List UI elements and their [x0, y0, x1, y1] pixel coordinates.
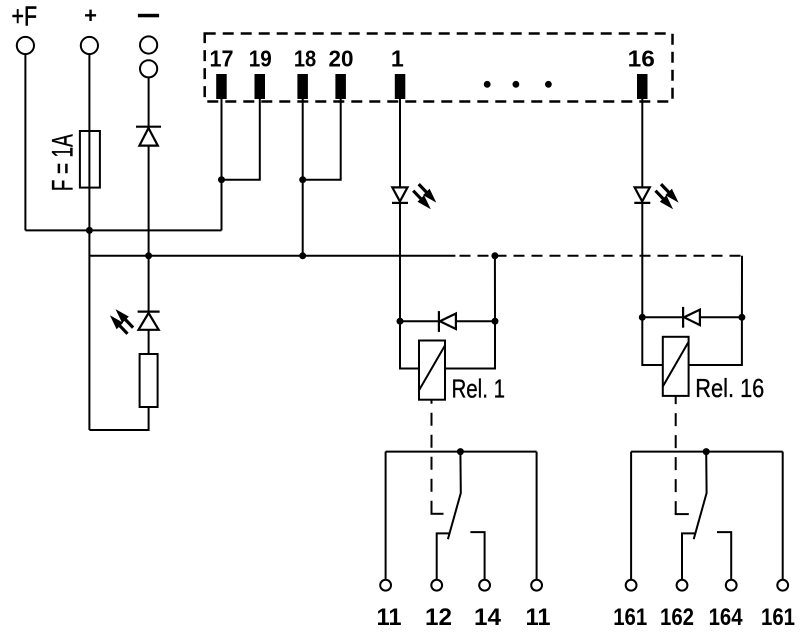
terminal 164 — [726, 580, 737, 591]
terminal 12 — [431, 580, 442, 591]
svg-text:161: 161 — [761, 604, 795, 631]
terminal 161 left — [626, 580, 637, 591]
svg-text:161: 161 — [613, 604, 647, 631]
freewheel diode D1 — [400, 311, 495, 332]
svg-text:+F: +F — [12, 1, 38, 32]
svg-text:12: 12 — [425, 604, 452, 631]
wire NC contact 162 — [682, 533, 695, 579]
svg-text:16: 16 — [628, 46, 655, 72]
contact bus 161 channel 16 — [631, 451, 783, 453]
pin 19 — [249, 46, 272, 100]
pin 16 — [628, 46, 655, 100]
rail B dashed part — [460, 255, 743, 257]
svg-text:14: 14 — [474, 604, 502, 631]
pin 1 — [391, 46, 405, 100]
svg-text:20: 20 — [329, 46, 354, 72]
wire + line down through fuse to bottom wrap — [88, 54, 90, 430]
wire pin 17 to rail A — [221, 99, 223, 230]
svg-text:Rel. 16: Rel. 16 — [695, 373, 764, 403]
wire NO contact 14 — [470, 532, 484, 580]
switch lever channel 16 — [694, 452, 707, 540]
wire LED 16 down to coil node — [641, 203, 643, 317]
wire +F down to rail A — [24, 54, 26, 230]
wire terminal 11 right — [536, 452, 538, 580]
terminal 14 — [479, 580, 490, 591]
wire pin 16 to LED 16 — [641, 99, 643, 187]
LED power emission arrows — [110, 309, 133, 334]
wire NC contact 12 — [437, 533, 449, 579]
relay coil Rel. 16 — [663, 337, 765, 403]
svg-text:19: 19 — [249, 46, 272, 72]
svg-text:1: 1 — [391, 46, 404, 72]
wire pin 1 to LED 1 — [399, 99, 401, 187]
wire NO contact 164 — [717, 532, 731, 580]
pin 17 — [210, 46, 234, 100]
wire - terminal to diode — [148, 77, 150, 126]
junction lever channel 1 — [457, 448, 464, 455]
junction diode16 left — [639, 314, 646, 321]
wire rail B down through diode1 right to coil 1 right — [445, 256, 495, 369]
wire left node to coil 16 left — [642, 317, 663, 365]
LED channel 1 — [392, 187, 408, 203]
wire pin 20 joining wire 18 — [303, 99, 341, 180]
wire - diode to power LED — [148, 146, 150, 312]
svg-text:+: + — [84, 3, 97, 28]
svg-text:11: 11 — [526, 604, 551, 631]
wire terminal 11 left — [385, 452, 387, 580]
wire pin 19 joining wire 17 — [222, 99, 260, 180]
ellipsis dots — [484, 81, 552, 88]
junction 17-19 — [218, 176, 225, 183]
actuator dashed link relay 1 — [431, 400, 433, 514]
junction 18-20 — [299, 176, 306, 183]
terminal - — [138, 14, 159, 78]
terminal 11 left — [380, 580, 391, 591]
fuse F = 1A — [46, 131, 100, 191]
svg-text:18: 18 — [294, 46, 316, 72]
junction diode16 right — [738, 314, 745, 321]
relay coil Rel. 1 — [419, 341, 505, 404]
junction diode1 right — [492, 318, 499, 325]
wire left node to coil 1 left — [400, 321, 419, 368]
svg-text:Rel. 1: Rel. 1 — [452, 374, 506, 404]
resistor R1 — [140, 354, 158, 407]
svg-text:17: 17 — [210, 46, 234, 72]
svg-text:162: 162 — [660, 604, 694, 631]
wire rail B corner down to coil 16 right — [689, 256, 742, 365]
diode V1 reverse protection — [136, 127, 161, 146]
wire terminal 161 right — [782, 452, 784, 580]
actuator dashed link relay 16 — [675, 396, 677, 514]
LED power indicator — [138, 312, 160, 330]
rail B solid part — [89, 255, 455, 257]
wire LED 1 down to coil node — [399, 203, 401, 321]
freewheel diode D16 — [642, 307, 742, 328]
pin 18 — [294, 46, 316, 100]
LED 16 emission arrows — [656, 184, 679, 209]
junction 18 on rail B — [299, 252, 306, 259]
wire LED to resistor — [148, 330, 150, 354]
contact bus 11 channel 1 — [386, 451, 537, 453]
pin 20 — [329, 46, 354, 100]
terminal + — [81, 3, 98, 54]
terminal 162 — [677, 580, 688, 591]
rail A horizontal — [25, 229, 221, 231]
svg-text:164: 164 — [709, 604, 744, 631]
junction diode1 left — [397, 318, 404, 325]
junction + on rail A — [86, 227, 93, 234]
terminal 161 right — [777, 580, 788, 591]
LED 1 emission arrows — [413, 184, 436, 209]
connector strip dashed box — [205, 34, 673, 102]
svg-text:11: 11 — [377, 604, 402, 631]
svg-text:F = 1A: F = 1A — [46, 134, 79, 191]
LED channel 16 — [634, 187, 650, 203]
wire terminal 161 left — [630, 452, 632, 580]
junction - on rail B — [145, 252, 152, 259]
terminal 11 right — [531, 580, 542, 591]
junction relay1 feed on rail B — [491, 252, 498, 259]
terminal +F — [12, 1, 38, 55]
junction lever channel 16 — [703, 448, 710, 455]
wire resistor bottom wrap to + line — [89, 407, 148, 430]
wire pin 18 to rail B — [302, 99, 304, 256]
switch lever channel 1 — [448, 452, 461, 540]
